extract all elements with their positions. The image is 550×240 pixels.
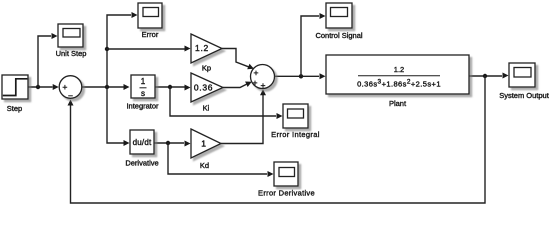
block: Error Integral scope: [283, 104, 308, 128]
svg-text:Kd: Kd: [200, 161, 209, 170]
svg-text:1.2: 1.2: [394, 65, 404, 74]
node: junction on Integrator output (branch to Error Integral scope): [168, 85, 172, 89]
block: System Output scope: [509, 63, 535, 87]
node: junction on Step output (branch to Unit Step scope): [36, 85, 40, 89]
wire: error branch to Kp gain input: [107, 46, 191, 52]
svg-text:Error Derivative: Error Derivative: [258, 189, 315, 198]
wire: Ki output to Sum2 lower-left input: [223, 79, 253, 88]
svg-text:0.36: 0.36: [194, 83, 213, 93]
svg-text:Control Signal: Control Signal: [315, 31, 362, 40]
svg-text:Derivative: Derivative: [125, 159, 158, 168]
node: junction on Sum2 output (branch to Control Signal scope): [299, 74, 303, 78]
wire: Integrator output to Ki gain input: [155, 85, 191, 91]
svg-text:Unit Step: Unit Step: [56, 49, 87, 58]
node: junction of error bus on main line: [105, 85, 109, 89]
wire: error bus down and right to Derivative input: [107, 87, 130, 146]
wire: Plant output to System Output scope input: [469, 73, 509, 79]
wire: branch down to Error Integral scope input: [170, 87, 283, 119]
node: junction on Plant output (feedback tap): [483, 74, 487, 78]
gain: Kp triangle value 1.2: [191, 34, 222, 63]
wire: branch up to Unit Step scope input: [38, 33, 58, 87]
sum junction: Sum1 (error comparator): [59, 76, 82, 99]
wire: Kp output to Sum2 upper-left input: [222, 49, 255, 72]
wire: Step output to Sum1 left input: [28, 84, 59, 90]
svg-text:du/dt: du/dt: [133, 138, 152, 147]
gain: Ki triangle value 0.36: [191, 73, 223, 102]
block: Plant transfer function: [326, 55, 469, 94]
wire: Sum1 output error signal to Integrator input: [82, 84, 130, 90]
wire: feedback path down, across bottom, up to Sum1 minus input: [68, 76, 486, 203]
sum junction: Sum2 (PID summer): [251, 65, 275, 89]
node: junction for Kp branch: [105, 47, 109, 51]
block: Unit Step scope: [58, 24, 83, 47]
svg-text:System Output: System Output: [499, 91, 550, 100]
svg-text:Integrator: Integrator: [126, 102, 159, 111]
svg-text:0.36s3+1.86s2+2.5s+1: 0.36s3+1.86s2+2.5s+1: [357, 78, 441, 88]
block: Control Signal scope: [326, 3, 352, 28]
wire: branch up to Control Signal scope input: [301, 13, 326, 76]
svg-text:Kp: Kp: [202, 64, 211, 73]
svg-text:Step: Step: [7, 104, 22, 113]
block: Integrator 1/s: [131, 75, 155, 98]
svg-text:1: 1: [201, 139, 206, 149]
block: Error Derivative scope: [274, 162, 298, 186]
svg-text:1.2: 1.2: [195, 43, 209, 53]
svg-text:Error: Error: [142, 30, 159, 39]
block: Error scope: [138, 3, 162, 28]
node: junction on Derivative output (branch to Error Derivative scope): [166, 141, 170, 145]
svg-text:Plant: Plant: [389, 99, 407, 108]
svg-text:1: 1: [141, 77, 146, 86]
gain: Kd triangle value 1: [191, 129, 221, 158]
svg-text:Error Integral: Error Integral: [271, 130, 320, 139]
wire: Derivative output to Kd gain input: [154, 141, 191, 147]
block: Derivative du/dt: [130, 130, 154, 154]
wire: error bus up and right to Error scope input: [107, 12, 138, 87]
wire: Kd output right then up to Sum2 bottom input: [221, 89, 266, 143]
wire: branch down to Error Derivative scope input: [168, 143, 274, 177]
svg-text:Ki: Ki: [203, 104, 210, 113]
svg-text:s: s: [141, 89, 145, 98]
wire: Sum2 output to Plant input: [275, 73, 326, 79]
block: Step source: [2, 75, 28, 99]
